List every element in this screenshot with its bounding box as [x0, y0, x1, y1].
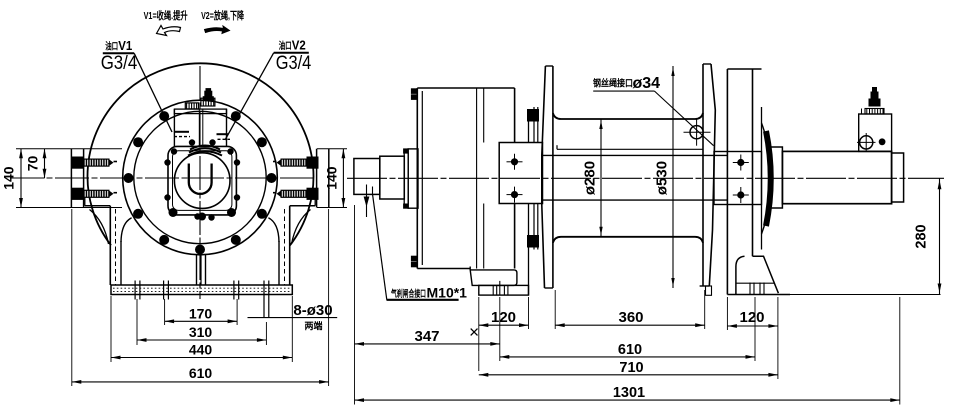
label air brake port M10*1	[364, 185, 468, 301]
svg-text:两端: 两端	[304, 320, 322, 331]
svg-text:120: 120	[491, 309, 516, 326]
dimension phi530	[654, 66, 675, 288]
drum left flange	[542, 66, 553, 288]
svg-text:ø530: ø530	[654, 161, 671, 195]
svg-text:70: 70	[25, 156, 41, 172]
left bracket plate	[71, 149, 83, 208]
V2 rotation arrow	[205, 26, 230, 34]
hydraulic motor body	[782, 151, 891, 203]
spring hatch above square	[188, 146, 222, 156]
rope layer line	[557, 145, 703, 149]
dimension 1301	[355, 297, 900, 405]
base plate bolt holes	[135, 281, 269, 318]
dimension 280	[906, 178, 941, 294]
tie rod bolt top-left	[72, 157, 117, 168]
right hub coupling	[714, 152, 762, 205]
dimension 140 left	[1, 149, 23, 208]
label V2 direction	[201, 9, 244, 22]
brake release valve	[174, 89, 226, 147]
brake valve block	[857, 88, 892, 152]
left bearing plates	[528, 107, 539, 295]
dimension 70	[25, 149, 47, 179]
dimension 170	[165, 299, 238, 325]
svg-text:170: 170	[189, 305, 213, 321]
svg-text:钢丝绳接口: 钢丝绳接口	[593, 78, 633, 90]
pedestal center web	[197, 255, 206, 286]
square bolt dots	[164, 139, 240, 220]
svg-text:G3/4: G3/4	[101, 53, 138, 74]
flange bolts	[124, 111, 277, 254]
dimension 610 right view	[500, 297, 755, 361]
dimension phi280	[582, 119, 603, 237]
dimension 710	[479, 297, 778, 379]
drum right flange	[700, 64, 716, 295]
svg-text:610: 610	[189, 365, 213, 381]
svg-text:V1=收绳.提升: V1=收绳.提升	[144, 9, 188, 22]
svg-text:610: 610	[618, 342, 642, 358]
svg-text:140: 140	[323, 166, 339, 190]
svg-text:油口: 油口	[105, 40, 118, 52]
side thread marks	[174, 132, 230, 140]
shaft end	[354, 159, 380, 195]
left hub coupling	[499, 143, 542, 204]
tie rod bolt bottom-right	[273, 188, 318, 199]
svg-text:360: 360	[618, 309, 643, 326]
base plate	[111, 285, 292, 295]
svg-text:ø34: ø34	[633, 75, 661, 92]
pedestal walls	[85, 198, 315, 285]
svg-text:280: 280	[914, 224, 930, 248]
svg-text:140: 140	[1, 166, 17, 190]
svg-text:347: 347	[414, 328, 439, 345]
svg-text:710: 710	[619, 360, 643, 376]
drum shaft tube	[542, 155, 727, 200]
bolt ring inner circle	[134, 111, 266, 243]
svg-text:油口: 油口	[279, 40, 292, 52]
label V1 direction	[144, 9, 188, 22]
svg-text:1301: 1301	[613, 385, 645, 401]
svg-text:M10*1: M10*1	[427, 284, 468, 300]
motor flange plates	[404, 149, 418, 208]
svg-text:310: 310	[189, 324, 213, 340]
svg-text:ø280: ø280	[582, 161, 599, 195]
right view centerline	[347, 177, 944, 179]
right 140 extension lines	[317, 149, 347, 208]
label oil port V2 G3/4	[225, 37, 312, 140]
motor mounting square	[168, 146, 236, 215]
left support foot	[470, 267, 528, 296]
dimension 120 right	[727, 297, 778, 330]
U coupling mark	[189, 164, 212, 194]
bearing bulge	[762, 123, 772, 234]
motor coupling	[769, 147, 782, 208]
drum barrel	[553, 113, 703, 243]
rope anchor hole	[684, 120, 711, 146]
inner square line	[173, 151, 232, 211]
dimension 360	[555, 290, 705, 329]
center bore circle	[174, 153, 230, 209]
svg-text:V1: V1	[118, 38, 132, 53]
label oil port V1 G3/4	[101, 38, 172, 132]
gearbox housing	[411, 88, 514, 269]
right support bracket	[727, 69, 761, 295]
square corner pads	[169, 208, 237, 221]
dimension 347	[355, 205, 500, 405]
right bracket plate	[317, 149, 329, 208]
tie rod bolt top-right	[273, 157, 318, 168]
svg-text:440: 440	[189, 342, 213, 358]
V1 rotation arrow	[157, 26, 181, 36]
left view horizontal centerline	[10, 177, 317, 179]
coupling crescent	[766, 131, 771, 226]
tie rod bolt bottom-left	[72, 188, 117, 199]
dimension 140 right	[323, 149, 345, 208]
dimension 310	[137, 299, 266, 345]
svg-text:G3/4: G3/4	[276, 53, 312, 74]
svg-text:V2: V2	[292, 37, 306, 52]
dimension 120 left	[479, 297, 529, 371]
svg-text:8-ø30: 8-ø30	[293, 302, 332, 319]
svg-text:120: 120	[739, 309, 764, 326]
dimension 610 left view	[72, 209, 329, 386]
dimension 440	[111, 296, 292, 362]
label rope dia 34	[593, 75, 714, 146]
shaft step	[380, 156, 405, 199]
motor end cap	[892, 153, 904, 202]
left view vertical centerline	[199, 66, 201, 299]
svg-text:气刹闸合接口: 气刹闸合接口	[390, 288, 426, 300]
bolt flange housing circle	[123, 100, 278, 255]
base extension line	[779, 294, 941, 296]
svg-text:V2=放绳,下降: V2=放绳,下降	[201, 9, 244, 22]
label 8-d30 two ends	[248, 302, 338, 331]
outer casing circle	[88, 63, 314, 245]
left 140 extension lines	[16, 149, 122, 208]
right bracket foot	[727, 256, 790, 294]
